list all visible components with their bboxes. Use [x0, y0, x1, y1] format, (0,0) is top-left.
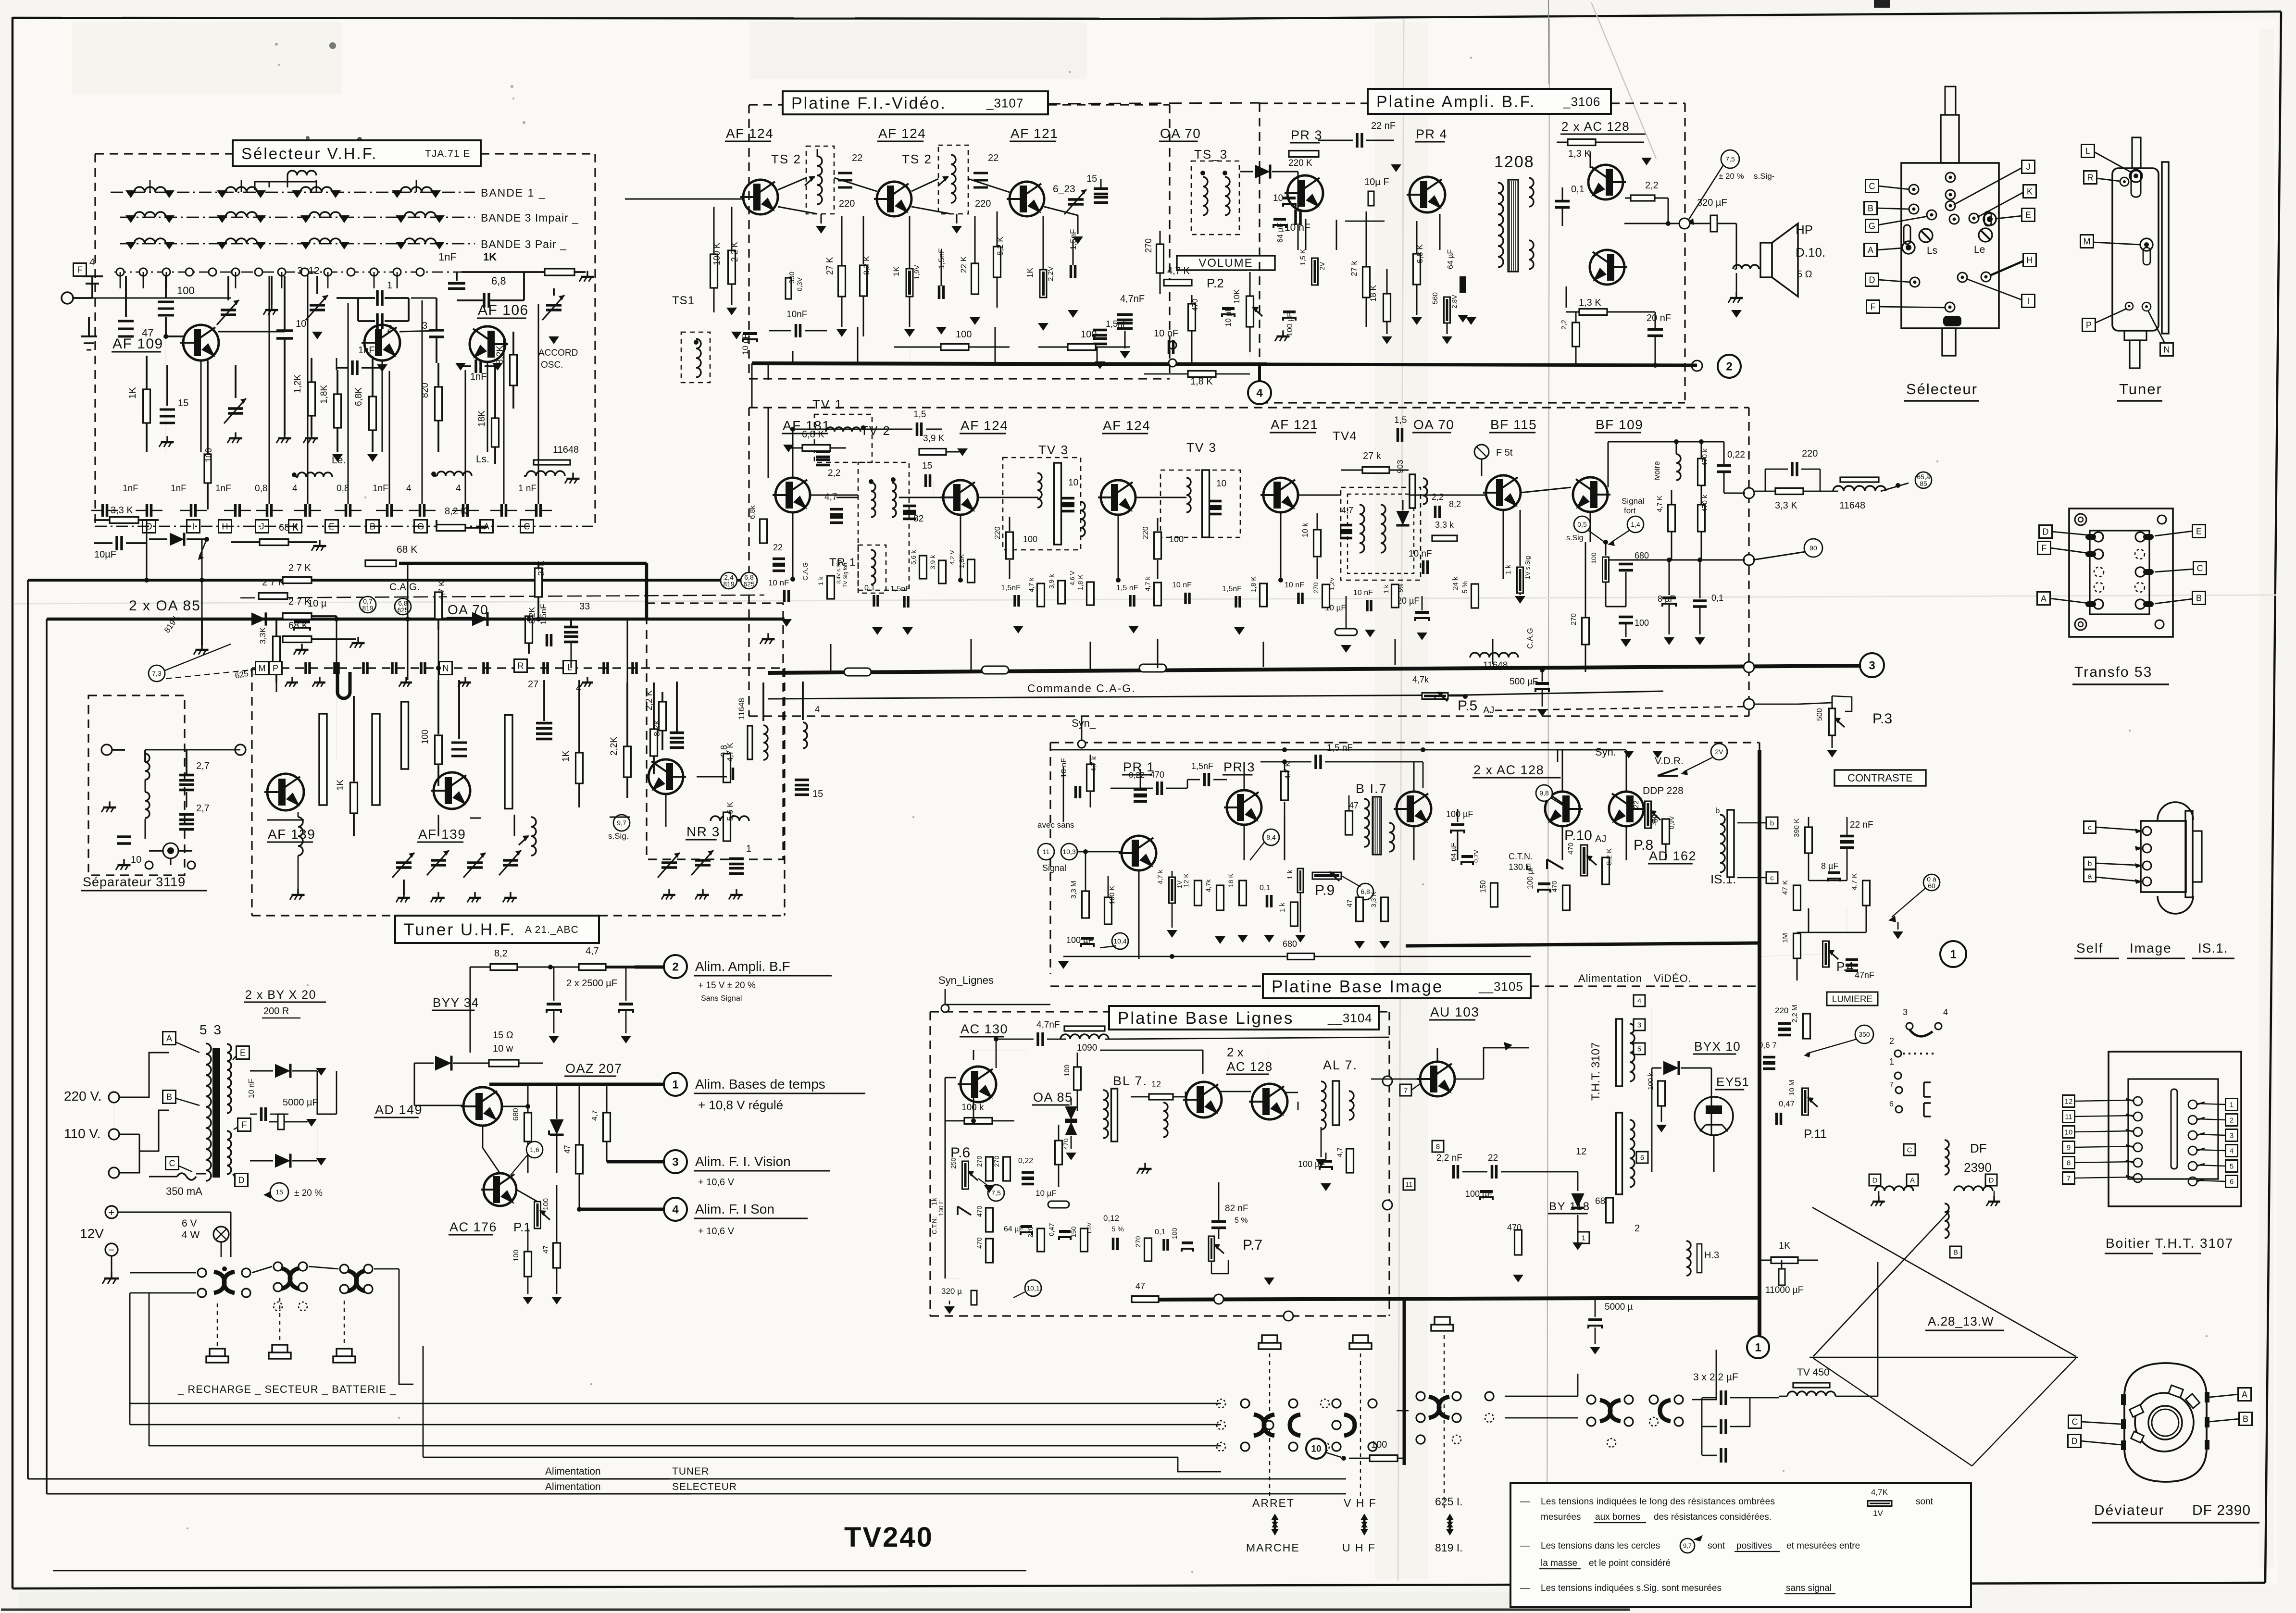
svg-text:Les tensions indiquées s.Sig.: Les tensions indiquées s.Sig. sont mesur…: [1541, 1583, 1722, 1593]
cap uhf b: [536, 722, 552, 725]
svg-text:11: 11: [1406, 1180, 1413, 1188]
svg-text:AF 124: AF 124: [878, 126, 926, 141]
svg-text:1: 1: [746, 844, 751, 854]
au103 arrow: [1504, 1042, 1512, 1051]
svg-text:1: 1: [2230, 1101, 2234, 1109]
svg-text:AJ: AJ: [1483, 705, 1494, 716]
svg-text:P.11: P.11: [1804, 1127, 1827, 1141]
svg-text:OA 70: OA 70: [448, 602, 488, 617]
amp transistor 1: [1287, 175, 1323, 211]
svg-text:AC 176: AC 176: [449, 1220, 497, 1234]
border frame top: [12, 18, 1202, 19]
svg-text:11: 11: [1043, 848, 1050, 856]
diode OA85 a: [170, 533, 184, 546]
bi res 4,7k in: [1087, 764, 1094, 791]
svg-text:100: 100: [1635, 618, 1649, 628]
svg-text:BANDE 3 Impair _: BANDE 3 Impair _: [481, 211, 579, 224]
svg-text:F: F: [1871, 302, 1876, 311]
svg-text:2,2: 2,2: [828, 468, 840, 478]
svg-text:100: 100: [956, 329, 972, 340]
cap 1 uhf: [729, 857, 744, 860]
svg-text:100: 100: [1169, 534, 1184, 544]
bi res 12K: [1195, 881, 1202, 906]
band wire b: [336, 616, 337, 680]
tht coil h3: [1686, 1241, 1691, 1276]
sel net y620: [73, 298, 231, 299]
svg-text:3,3 K: 3,3 K: [1775, 500, 1797, 511]
dashed box NR3: [647, 603, 783, 859]
svg-text:Platine Base Lignes: Platine Base Lignes: [1118, 1009, 1294, 1028]
bande coil 2: [225, 187, 257, 192]
svg-text:8: 8: [1436, 1142, 1440, 1151]
tuner pins: [2130, 170, 2142, 182]
fi transistor 3: [1010, 182, 1044, 216]
tuner sq N: [2160, 343, 2173, 356]
box VOLUME: [1177, 256, 1275, 270]
svg-text:H: H: [2027, 255, 2033, 265]
svg-text:2V: 2V: [1318, 261, 1326, 270]
svg-text:220: 220: [975, 199, 991, 209]
sep gnd: [109, 801, 110, 807]
svg-text:5: 5: [1637, 1045, 1641, 1053]
svg-text:C.T.N.: C.T.N.: [931, 1217, 938, 1234]
svg-text:22: 22: [988, 153, 998, 163]
alim 4 circ: [664, 1198, 687, 1221]
svg-text:—: —: [1520, 1583, 1530, 1593]
svg-text:F: F: [242, 1120, 247, 1129]
fi r1 res 100K: [711, 254, 718, 288]
commande CAG line: [768, 695, 1466, 699]
svg-text:1V s.Sig-: 1V s.Sig-: [1524, 554, 1531, 579]
bi transistor 4: [1545, 792, 1580, 826]
svg-text:—: —: [1520, 1496, 1530, 1507]
tuner sq P: [2083, 319, 2096, 332]
svg-text:2: 2: [1635, 1223, 1640, 1234]
svg-text:6,8k: 6,8k: [749, 505, 757, 519]
selecteur sq F: [1867, 300, 1880, 313]
svg-text:11000 µF: 11000 µF: [1765, 1285, 1803, 1295]
svg-text:1,8 K: 1,8 K: [1249, 576, 1257, 592]
svg-text:47 K: 47 K: [1781, 880, 1789, 895]
svg-text:10 nF: 10 nF: [1353, 589, 1373, 597]
ps wire reg: [482, 1126, 484, 1148]
circ 10 bottom: [1306, 1439, 1326, 1459]
res 1,3K a: [1568, 139, 1596, 146]
bl pot P7: [1209, 1236, 1214, 1261]
amp bottom wire: [1267, 364, 1697, 365]
small trim: [221, 309, 236, 311]
svg-text:0,8: 0,8: [255, 484, 267, 494]
base image bot net: [1138, 870, 1140, 959]
bi res 3,3M: [1082, 891, 1089, 918]
svg-text:12: 12: [2065, 1097, 2073, 1105]
svg-text:2,7: 2,7: [196, 761, 210, 771]
svg-text:Signal: Signal: [1622, 496, 1644, 506]
res 100 uhf: [435, 735, 442, 764]
gnd ts2a: [816, 226, 826, 234]
svg-text:HP: HP: [1796, 223, 1813, 237]
svg-text:100: 100: [1081, 329, 1097, 340]
sw wires left: [130, 1403, 1221, 1404]
ps jack a: [210, 1349, 225, 1356]
svg-text:11648: 11648: [1839, 500, 1865, 511]
svg-text:4: 4: [2230, 1147, 2234, 1155]
svg-text:270: 270: [975, 1155, 983, 1167]
svg-text:V H F: V H F: [1344, 1497, 1377, 1509]
svg-text:F 5t: F 5t: [1496, 447, 1513, 458]
svg-text:18K: 18K: [477, 410, 487, 427]
svg-text:c: c: [1770, 874, 1774, 882]
svg-text:4,7 K: 4,7 K: [725, 743, 735, 762]
row2 right net: [1590, 512, 1591, 542]
svg-text:Ls: Ls: [1927, 245, 1937, 256]
res 560 amp: [1444, 297, 1450, 323]
svg-text:1: 1: [1582, 1234, 1585, 1242]
svg-text:AF 121: AF 121: [1271, 417, 1318, 432]
svg-text:3: 3: [672, 1155, 678, 1168]
sep coil b: [145, 792, 150, 818]
cap 22 b: [973, 172, 988, 174]
svg-text:mesurées: mesurées: [1541, 1512, 1581, 1522]
af139 transistor a: [267, 774, 304, 810]
svg-text:15: 15: [178, 398, 188, 409]
transfo sq C: [2194, 562, 2207, 575]
u loop: [337, 672, 350, 698]
svg-text:F: F: [2042, 543, 2047, 553]
svg-text:5 3: 5 3: [200, 1022, 223, 1037]
transfo sq A: [2037, 592, 2050, 605]
ps sq F: [238, 1118, 251, 1131]
svg-text:0,8: 0,8: [337, 484, 349, 494]
svg-text:47: 47: [1136, 1281, 1145, 1291]
feedthrough pill 1: [844, 668, 871, 676]
svg-text:10 M: 10 M: [1788, 1080, 1796, 1096]
paper bottom edge: [1, 1609, 1630, 1611]
sel bottom dashdot: [95, 526, 595, 527]
svg-text:9,8: 9,8: [1539, 789, 1549, 797]
svg-text:I: I: [192, 521, 194, 531]
svg-text:Tuner: Tuner: [2119, 381, 2162, 397]
amp gnd a: [1641, 158, 1652, 165]
alim 3 circ: [664, 1150, 687, 1173]
svg-text:sans signal: sans signal: [1786, 1583, 1832, 1593]
res 100 bf115: [1605, 583, 1607, 607]
svg-text:Ls.: Ls.: [476, 454, 489, 465]
dashed box TV2: [858, 462, 909, 590]
ps byy34 diode: [435, 1056, 451, 1071]
svg-text:5000 µ: 5000 µ: [1605, 1302, 1633, 1312]
svg-text:1nF: 1nF: [373, 484, 388, 494]
svg-text:CONTRASTE: CONTRASTE: [1847, 772, 1913, 784]
varcap 6-23: [1068, 198, 1084, 201]
cap 0,1 amp: [1555, 200, 1570, 203]
boitier sq 12: [2063, 1095, 2075, 1107]
svg-text:3,9 k: 3,9 k: [1048, 574, 1055, 589]
svg-text:1 k: 1 k: [1286, 869, 1294, 880]
svg-text:s.Sig: s.Sig: [1566, 534, 1584, 542]
svg-text:B: B: [1868, 203, 1873, 213]
svg-text:470: 470: [975, 1237, 983, 1249]
selecteur conn screws: [1919, 229, 1933, 242]
r2 gnd row: [872, 627, 883, 635]
sep cap 10: [117, 835, 131, 838]
selecteur conn top stub: [1941, 115, 1959, 163]
band wire d: [519, 619, 571, 620]
svg-text:9,7: 9,7: [1683, 1542, 1692, 1550]
bl former: [1111, 1089, 1118, 1142]
ps meas 1,6: [526, 1142, 543, 1158]
selector terminal circle 1: [116, 268, 124, 276]
sep coil a: [145, 754, 150, 780]
svg-text:470: 470: [1062, 1138, 1070, 1150]
mid transistor: [364, 325, 400, 360]
svg-text:4,2 V: 4,2 V: [948, 550, 956, 565]
svg-text:Transfo 53: Transfo 53: [2074, 664, 2152, 680]
svg-text:9: 9: [2067, 1143, 2071, 1152]
ps jack b: [272, 1345, 287, 1352]
boitier sq 10: [2063, 1126, 2075, 1138]
cap 3 af106: [429, 329, 444, 332]
svg-text:270: 270: [1570, 613, 1578, 625]
svg-text:C: C: [169, 1158, 175, 1168]
res 1K uhf a: [350, 782, 358, 813]
oa70 diode r2: [1396, 511, 1409, 525]
svg-text:10 µ: 10 µ: [308, 598, 327, 609]
border frame right: [2265, 12, 2281, 1583]
svg-text:4,7 k: 4,7 k: [1144, 576, 1151, 591]
svg-text:350: 350: [1859, 1030, 1870, 1038]
svg-text:100: 100: [1590, 552, 1597, 564]
svg-text:27 k: 27 k: [1363, 451, 1382, 461]
svg-text:4,7: 4,7: [586, 946, 599, 956]
svg-text:3: 3: [2230, 1131, 2234, 1140]
selector terminal circle 5: [209, 268, 216, 276]
sw cluster 2: [1332, 1399, 1341, 1408]
fi transistor 2: [877, 182, 911, 216]
r2 transistor 4: [1263, 478, 1298, 512]
svg-text:10 nF: 10 nF: [1409, 549, 1432, 559]
bande coil 8: [404, 212, 436, 217]
tv3b former: [1202, 470, 1210, 537]
svg-text:470: 470: [1550, 881, 1558, 892]
input letter F: [74, 263, 87, 276]
svg-text:60: 60: [1928, 882, 1935, 890]
tht wires misc: [1759, 750, 1760, 938]
bl wires: [973, 1095, 974, 1121]
svg-text:1,5nF: 1,5nF: [1001, 584, 1021, 592]
res 1,8K: [334, 394, 341, 428]
gnd ts3: [1073, 236, 1083, 244]
alim 1 circ: [664, 1073, 687, 1096]
varcap row b: [467, 861, 483, 864]
arrow to OA85: [200, 539, 207, 557]
deviateur side tabs left: [2121, 1394, 2126, 1405]
svg-text:D: D: [2043, 527, 2049, 536]
svg-text:22: 22: [1632, 800, 1640, 808]
r2 base feed: [792, 429, 794, 478]
selecteur sq I: [2022, 295, 2035, 308]
svg-text:470 k: 470 k: [1701, 448, 1709, 466]
THT vertical bus: [1758, 750, 1761, 1336]
svg-text:c: c: [2088, 824, 2092, 832]
nr3 wires: [665, 794, 667, 827]
svg-text:Le.: Le.: [332, 455, 346, 466]
svg-text:110 V.: 110 V.: [64, 1126, 100, 1141]
svg-text:100 µF: 100 µF: [1286, 312, 1294, 336]
tht coil defl c: [1945, 1140, 1949, 1175]
bande coil 10: [225, 238, 257, 244]
transfo corner holes: [2075, 514, 2086, 525]
svg-text:150: 150: [1070, 1226, 1077, 1238]
svg-text:2 x 2500 µF: 2 x 2500 µF: [566, 978, 617, 989]
svg-text:Sélecteur V.H.F.: Sélecteur V.H.F.: [241, 145, 377, 162]
svg-text:6,8: 6,8: [491, 275, 506, 287]
selector terminal circle 11: [347, 268, 355, 276]
svg-text:100 k: 100 k: [961, 1103, 984, 1113]
svg-text:27: 27: [528, 679, 538, 690]
transfo eyelets right: [2135, 532, 2145, 542]
coil mid uhf: [531, 817, 536, 856]
svg-text:2,2: 2,2: [1645, 180, 1659, 191]
alim 2 circ: [664, 955, 687, 978]
svg-text:TV 3: TV 3: [1186, 440, 1217, 455]
svg-text:11648: 11648: [553, 445, 579, 455]
svg-text:1,6: 1,6: [530, 1146, 539, 1154]
F5t lamp: [1474, 445, 1489, 459]
meas 2V vdr: [1711, 744, 1727, 760]
r2 transistor 5: [1486, 475, 1521, 510]
svg-text:47: 47: [542, 1245, 550, 1253]
svg-text:330: 330: [1650, 814, 1658, 826]
svg-text:E: E: [2196, 526, 2202, 536]
ps diode b: [275, 1154, 290, 1167]
svg-text:4: 4: [1256, 386, 1263, 399]
tone bottom strip: [19, 1592, 1510, 1609]
svg-text:220: 220: [839, 199, 855, 209]
svg-text:5: 5: [2230, 1162, 2234, 1170]
svg-text:4,7 K: 4,7 K: [1284, 761, 1292, 780]
deviateur sq A: [2238, 1388, 2251, 1401]
svg-text:PR 3: PR 3: [1291, 128, 1323, 142]
res 18K: [492, 418, 499, 447]
svg-text:100 µF: 100 µF: [1446, 809, 1473, 819]
svg-text:5000 µF: 5000 µF: [283, 1097, 318, 1108]
selector terminal circle 9: [301, 268, 309, 276]
transfo sq E: [2193, 525, 2206, 538]
svg-text:la masse: la masse: [1541, 1558, 1577, 1568]
svg-text:8,2 K: 8,2 K: [1605, 848, 1613, 865]
svg-text:P.8: P.8: [1634, 837, 1653, 853]
bi transistor 2: [1227, 790, 1261, 825]
tht right nets: [1759, 954, 1822, 956]
svg-text:10: 10: [1216, 479, 1226, 489]
dashed box TV3 a: [1003, 458, 1081, 550]
tone top mid: [750, 22, 1086, 79]
sep cap 2,7 b: [179, 813, 194, 816]
svg-text:500 µF: 500 µF: [1510, 677, 1538, 687]
transfo sq D: [2039, 525, 2052, 538]
ps 12v minus: [105, 1243, 118, 1256]
svg-text:4,7k: 4,7k: [1204, 879, 1212, 892]
selecteur conn pin E double: [1984, 213, 1996, 225]
bi res 8,2K: [1602, 857, 1610, 884]
bl meas 10,1: [1025, 1280, 1041, 1296]
svg-text:5 %: 5 %: [1111, 1225, 1124, 1233]
bl sq8: [1432, 1141, 1444, 1152]
svg-text:0,1: 0,1: [1711, 593, 1723, 603]
svg-text:TS1: TS1: [672, 294, 695, 307]
uhf coil bottom a: [298, 817, 303, 856]
svg-text:5,6 k: 5,6 k: [910, 550, 917, 565]
bi pot P9: [1312, 872, 1341, 879]
border frame bottom: [12, 1586, 1154, 1588]
svg-text:4,6 V: 4,6 V: [1069, 571, 1076, 585]
bi meas 9,8: [1536, 785, 1552, 801]
svg-text:47: 47: [563, 1145, 572, 1154]
dashed box TS2 a: [806, 146, 834, 214]
svg-text:220 K: 220 K: [1288, 158, 1312, 168]
svg-text:ivoire: ivoire: [1652, 461, 1661, 481]
svg-text:AF 121: AF 121: [1011, 126, 1058, 141]
svg-text:0,1: 0,1: [1155, 1228, 1165, 1236]
svg-text:B: B: [1953, 1248, 1958, 1256]
svg-text:A: A: [2041, 594, 2046, 603]
svg-text:TS 2: TS 2: [771, 152, 801, 166]
svg-text:Alim. Bases de temps: Alim. Bases de temps: [695, 1077, 825, 1092]
svg-text:1K: 1K: [561, 750, 571, 762]
bl sq7: [1400, 1084, 1411, 1096]
boitier body: [2109, 1052, 2241, 1206]
sel top nets: [165, 336, 166, 452]
svg-text:1K: 1K: [336, 779, 346, 791]
svg-text:10 nF: 10 nF: [1172, 581, 1192, 589]
diode OA85 b: [251, 612, 266, 625]
band wire e: [538, 619, 627, 620]
svg-text:SELECTEUR: SELECTEUR: [672, 1481, 737, 1492]
selector terminal circle 6: [232, 268, 239, 276]
svg-text:150: 150: [1479, 880, 1487, 893]
bl transistor 4: [1420, 1062, 1455, 1096]
fi r1 res 8,2K a: [860, 265, 867, 296]
selecteur sq K: [2023, 185, 2036, 198]
svg-text:J: J: [2026, 162, 2031, 172]
svg-text:3,3 k: 3,3 k: [1435, 520, 1454, 530]
svg-text:10µF: 10µF: [94, 549, 116, 560]
svg-text:sont: sont: [1708, 1541, 1725, 1551]
svg-text:B: B: [166, 1092, 172, 1102]
svg-text:20 nF: 20 nF: [1647, 313, 1671, 323]
svg-text:1,2V: 1,2V: [1328, 577, 1335, 590]
svg-text:3,3 K: 3,3 K: [1370, 892, 1377, 907]
svg-text:10 µF: 10 µF: [741, 334, 750, 355]
box LUMIERE: [1827, 992, 1878, 1005]
ps jack wires: [230, 1212, 232, 1257]
dashed box Base Lignes: [930, 1011, 1109, 1012]
smudge top: [329, 42, 336, 49]
svg-text:Tuner U.H.F.: Tuner U.H.F.: [404, 920, 516, 939]
varcap row a: [396, 861, 412, 864]
svg-text:2 7 K: 2 7 K: [288, 563, 311, 573]
svg-text:AF 124: AF 124: [1103, 418, 1150, 433]
svg-text:H.3: H.3: [1704, 1250, 1719, 1261]
svg-text:0,7V: 0,7V: [1472, 850, 1480, 863]
svg-text:1M: 1M: [1781, 933, 1789, 943]
svg-text:47: 47: [1349, 801, 1359, 810]
fi r1 gnd a: [731, 332, 742, 339]
bande coil 9: [134, 238, 166, 244]
svg-text:625 I.: 625 I.: [1435, 1495, 1463, 1508]
res 100 mid: [204, 454, 211, 483]
